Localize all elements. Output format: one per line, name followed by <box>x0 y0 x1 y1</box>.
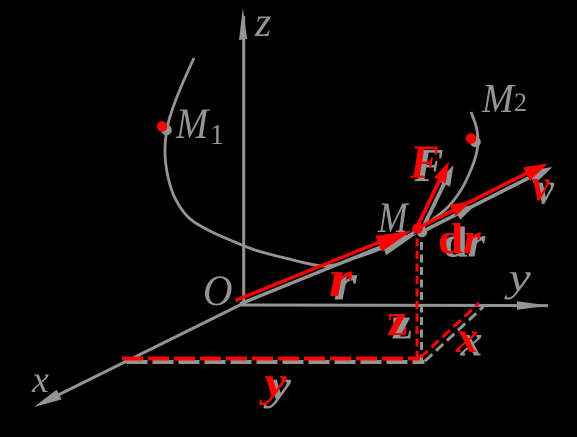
shadow of point M1 <box>161 125 172 136</box>
z axis <box>239 8 247 304</box>
svg-text:O: O <box>203 268 232 315</box>
shadow of F vector <box>422 173 450 230</box>
svg-text:z: z <box>254 0 271 46</box>
svg-text:x: x <box>31 359 49 401</box>
svg-text:M: M <box>481 76 516 122</box>
svg-text:z: z <box>387 294 407 345</box>
svg-text:dr: dr <box>438 215 482 263</box>
x axis <box>34 303 244 407</box>
shadow of dr arrowhead <box>454 205 476 220</box>
shadow of point M <box>417 227 428 238</box>
shadow of point M2 <box>470 137 481 148</box>
v vector <box>422 164 548 227</box>
svg-text:r: r <box>329 251 354 309</box>
point M <box>412 223 423 234</box>
r vector <box>236 231 413 301</box>
svg-text:x: x <box>455 313 478 362</box>
shadow of dashed x coordinate <box>425 307 484 362</box>
point M2 <box>466 133 477 144</box>
svg-text:v: v <box>532 160 550 211</box>
trajectory curve through M1 M M2 <box>165 58 478 266</box>
svg-text:2: 2 <box>514 88 527 117</box>
point M1 <box>157 121 168 132</box>
shadow of dashed z coordinate <box>420 241 423 363</box>
shadow of dashed y coordinate <box>127 360 425 364</box>
dashed z coordinate line <box>416 237 419 359</box>
svg-text:1: 1 <box>210 120 224 151</box>
dr vector arrowhead <box>450 201 472 216</box>
svg-text:F: F <box>409 135 439 189</box>
F vector <box>418 162 450 227</box>
svg-text:y: y <box>504 256 532 300</box>
shadow of v vector <box>427 173 540 230</box>
dashed y coordinate line <box>122 357 420 361</box>
shadow of r vector <box>240 237 407 305</box>
y axis <box>240 301 550 309</box>
dashed x coordinate line <box>421 303 480 358</box>
svg-text:M: M <box>175 100 210 147</box>
